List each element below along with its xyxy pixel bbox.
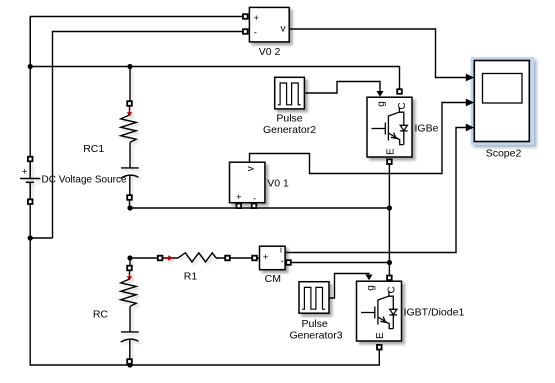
IGBe gate arrow [376,91,383,97]
IGBT/Diode1 port C [387,276,392,281]
svg-text:C: C [397,102,408,109]
wire battery rail to mid rail at y238 [30,237,52,239]
wire CM i output to Scope2 input 3 [285,128,467,253]
svg-text:+: + [22,167,28,178]
current measurement CM [260,244,286,269]
CM port in [252,256,257,261]
svg-text:-: - [281,256,284,267]
diode anti-parallel [389,296,397,328]
op block IGBe [367,97,412,157]
node junction RC top R1 row [127,255,132,260]
svg-text:Scope2: Scope2 [486,147,522,159]
transistor IGBT symbol [372,107,404,145]
battery plates [20,162,40,200]
svg-text:Generator3: Generator3 [289,329,342,341]
svg-text:+: + [236,192,242,203]
scope Scope2 [471,57,534,145]
svg-text:Generator2: Generator2 [263,124,316,136]
svg-text:v: v [245,166,256,171]
svg-text:g: g [365,285,376,291]
svg-text:g: g [376,101,387,107]
node junction RC bottom bus [127,362,132,367]
IGBe port E [387,159,392,164]
svg-text:-: - [254,27,257,38]
IGBe port C [397,89,402,94]
red orientation arrow R1 [164,255,173,260]
transistor IGBT symbol [361,291,393,329]
wire V0 2 plus input from left rail [30,17,243,67]
wire mid bus y208 [130,207,389,209]
selection highlight [471,57,534,145]
wire left rail bottom and bottom bus to IGBT/Diode1 E [30,204,379,365]
diode anti-parallel [399,112,407,144]
voltage measurement V0 2 [249,7,289,42]
RC port bottom [127,359,132,364]
svg-text:DC Voltage Source: DC Voltage Source [42,175,127,186]
Scope2 input arrow 2 [466,99,474,107]
R1 port left [158,256,163,261]
wire V0 2 minus input from mid rail [53,32,243,239]
wire V0 1 output to Scope2 input 2 [250,103,468,174]
Scope2 input arrow 3 [466,124,474,132]
voltage measurement V0 1 [230,162,265,203]
IGBT/Diode1 port E [377,345,382,350]
svg-text:R1: R1 [184,271,198,283]
IGBT/Diode1 gate arrow [365,275,372,281]
node junction mid bus mid vertical [387,205,392,210]
V0 1 port plus [237,204,242,209]
svg-text:E: E [385,148,396,155]
pulse generator Pulse Generator2 [275,77,305,109]
Scope2 input arrow 1 [466,74,474,82]
svg-text:V0 2: V0 2 [259,46,281,58]
CM port minus out [286,260,291,265]
pulse waveform icon [278,83,301,105]
svg-text:V0 1: V0 1 [267,178,289,190]
resistor-capacitor branch RC [121,258,139,359]
wire Pulse Generator2 to IGBe gate [305,82,380,94]
scope body [474,61,529,142]
V0 2 port plus [243,14,248,19]
wire V0 2 output to Scope2 input 1 [289,29,467,78]
node junction battery mid rail [28,235,33,240]
svg-text:RC: RC [93,309,109,321]
V0 2 port minus [243,29,248,34]
RC1 port top [127,101,132,106]
svg-text:+: + [263,252,269,263]
pulse waveform icon [302,287,325,309]
svg-text:E: E [375,332,386,339]
red orientation arrow RC1 [127,110,132,117]
wire main vertical IGBe E to IGBT/Diode1 C [388,164,390,275]
wire left rail top (battery plus up) [29,17,31,157]
svg-text:Pulse: Pulse [276,113,302,125]
wire Pulse Generator3 to IGBT/Diode1 gate [329,274,369,299]
svg-text:CM: CM [265,273,281,285]
svg-text:IGBe: IGBe [415,123,439,135]
svg-text:i: i [280,244,282,254]
wire CM minus output to mid vertical [291,262,389,264]
node junction CM minus mid vertical [387,260,392,265]
scope screen [483,74,523,104]
battery port top [28,157,33,162]
pulse generator Pulse Generator3 [299,282,329,314]
V0 1 port minus [252,204,257,209]
svg-text:IGBT/Diode1: IGBT/Diode1 [404,306,465,318]
node junction RC1 bottom mid bus [127,205,132,210]
svg-text:v: v [281,24,286,35]
svg-text:C: C [386,286,397,293]
R1 port right [225,256,230,261]
RC1 port bottom [127,195,132,200]
RC port top [127,266,132,271]
svg-text:-: - [253,194,256,204]
wire R1 row RC junction to CM [130,257,260,259]
svg-text:+: + [254,13,260,24]
resistor R1 [164,253,216,262]
svg-text:Pulse: Pulse [301,318,327,330]
op block IGBT/Diode1 [357,281,402,341]
battery port bottom [28,199,33,204]
resistor-capacitor branch RC1 [121,67,139,209]
red orientation arrow RC [127,274,132,281]
DC Voltage Source battery [20,162,40,200]
node junction battery top bus [28,64,33,69]
node junction RC1 top [127,64,132,69]
svg-text:RC1: RC1 [83,143,104,155]
wire top bus y66.5 to IGBe C [30,67,399,89]
